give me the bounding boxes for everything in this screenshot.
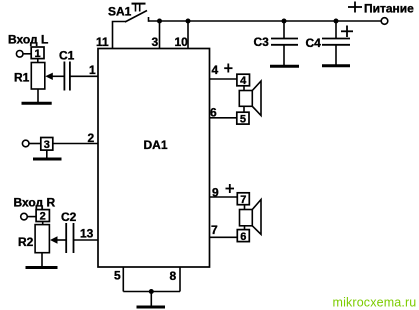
wire xyxy=(244,205,246,210)
wire C2 to pin 13 xyxy=(74,239,99,241)
wire pin 4 xyxy=(210,78,237,80)
wire pin 7 xyxy=(210,236,238,238)
svg-text:7: 7 xyxy=(240,194,246,206)
svg-text:C4: C4 xyxy=(306,36,322,50)
ground xyxy=(137,306,166,309)
svg-text:7: 7 xyxy=(211,223,218,237)
svg-text:R1: R1 xyxy=(14,71,30,85)
wire C1 to pin 1 xyxy=(70,75,98,77)
wire xyxy=(244,226,246,230)
wire xyxy=(37,59,39,63)
connector pin 6 box xyxy=(237,230,249,243)
wire pin 3 xyxy=(159,21,161,49)
ground under pin3 box xyxy=(33,150,62,159)
svg-text:6: 6 xyxy=(240,231,246,243)
wire pin 10 xyxy=(187,21,189,49)
wire xyxy=(23,53,31,55)
svg-text:6: 6 xyxy=(210,105,217,119)
node C4 junction xyxy=(334,19,339,24)
wire xyxy=(243,86,245,91)
wire pin 9 xyxy=(210,196,238,198)
op-amp/IC DA1 xyxy=(98,49,210,268)
node pin10 junction xyxy=(186,19,191,24)
capacitor C1 xyxy=(59,49,75,91)
svg-text:R2: R2 xyxy=(18,235,34,249)
resistor R2 (potentiometer) xyxy=(18,225,49,253)
polarity plus speaker 2 xyxy=(226,184,235,193)
node C3 junction xyxy=(282,19,287,24)
wire pin 8 xyxy=(179,267,181,292)
wire to ground xyxy=(150,292,152,306)
wire bottom xyxy=(123,291,180,293)
connector pin 5 box xyxy=(237,112,249,125)
connector pin 1 box xyxy=(31,47,44,60)
input R terminal xyxy=(21,213,28,220)
svg-text:Вход R: Вход R xyxy=(14,196,56,210)
connector pin 7 box xyxy=(237,193,249,206)
connector pin 4 box xyxy=(237,74,250,87)
connector pin 2 box xyxy=(36,210,49,223)
svg-text:Вход L: Вход L xyxy=(8,33,48,47)
svg-text:mikrocxema.ru: mikrocxema.ru xyxy=(333,296,417,310)
capacitor C4 xyxy=(306,21,354,65)
switch SA1 xyxy=(108,4,149,22)
connector pin 3 box xyxy=(41,138,53,152)
svg-text:2: 2 xyxy=(88,131,95,145)
wiper arrow R2 xyxy=(50,236,66,243)
polarity plus speaker 1 xyxy=(224,64,232,73)
node bottom junction xyxy=(149,289,154,294)
ground under C4 xyxy=(322,64,350,67)
wire xyxy=(243,106,245,112)
svg-text:10: 10 xyxy=(175,35,189,49)
speaker 1 xyxy=(239,81,261,116)
svg-text:SA1: SA1 xyxy=(108,5,132,19)
wire box to pin 2 xyxy=(53,143,98,145)
capacitor C2 xyxy=(61,210,77,253)
svg-text:Питание: Питание xyxy=(364,2,414,16)
svg-text:C1: C1 xyxy=(59,49,75,63)
wire pin 5 xyxy=(122,267,124,292)
svg-text:5: 5 xyxy=(114,268,121,282)
wire xyxy=(29,143,41,145)
node pin3 junction xyxy=(157,19,162,24)
capacitor C3 xyxy=(254,21,299,65)
svg-text:8: 8 xyxy=(170,269,177,283)
ground under C3 xyxy=(270,65,299,68)
power plus sign xyxy=(348,2,362,13)
svg-text:2: 2 xyxy=(40,211,46,223)
svg-text:5: 5 xyxy=(240,113,246,125)
svg-text:1: 1 xyxy=(35,48,41,60)
power terminal node xyxy=(381,18,388,25)
wiper arrow R1 xyxy=(45,73,64,80)
svg-text:3: 3 xyxy=(44,139,50,151)
svg-text:4: 4 xyxy=(240,75,247,87)
svg-text:DA1: DA1 xyxy=(144,138,168,152)
input common terminal xyxy=(22,140,29,147)
svg-text:4: 4 xyxy=(212,63,219,77)
svg-text:3: 3 xyxy=(152,35,159,49)
wire xyxy=(42,222,44,225)
ground under R1 xyxy=(22,89,52,103)
wire xyxy=(28,216,36,218)
input L terminal xyxy=(16,51,23,58)
svg-text:13: 13 xyxy=(80,226,94,240)
wire pin 6 xyxy=(210,117,237,119)
svg-text:C3: C3 xyxy=(254,35,270,49)
svg-text:C2: C2 xyxy=(61,210,77,224)
resistor R1 (potentiometer) xyxy=(14,63,45,90)
wire top rail xyxy=(149,20,382,22)
svg-text:11: 11 xyxy=(96,35,109,49)
svg-text:1: 1 xyxy=(89,63,96,77)
speaker 2 xyxy=(240,200,262,235)
wire pin 11 to switch xyxy=(113,22,127,49)
ground under R2 xyxy=(26,253,58,268)
